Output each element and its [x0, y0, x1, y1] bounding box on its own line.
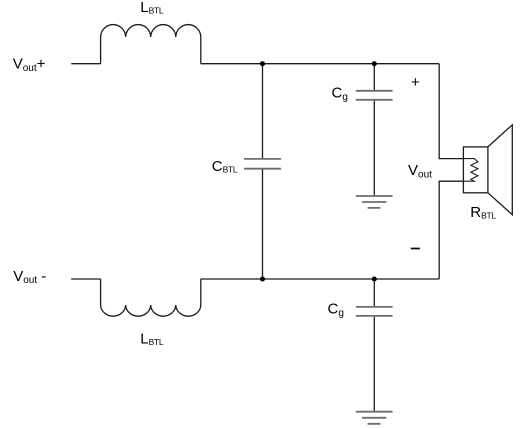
svg-text:Vout -: Vout -: [13, 268, 46, 286]
capacitor C_BTL plates: [244, 159, 281, 169]
svg-text:Vout: Vout: [408, 162, 432, 180]
capacitor C_BTL leads: [262, 64, 264, 279]
ground (top): [356, 196, 393, 208]
wire: Vout+ lead: [71, 63, 100, 65]
svg-text:Vout+: Vout+: [13, 56, 46, 74]
label - (speaker minus terminal): [411, 248, 420, 250]
svg-text:LBTL: LBTL: [140, 330, 164, 347]
svg-text:CBTL: CBTL: [212, 158, 238, 175]
capacitor Cg (top) leads: [373, 64, 375, 196]
svg-text:+: +: [411, 74, 420, 91]
wire: speaker to right vertical (bottom): [439, 181, 463, 279]
wire: Vout- lead: [71, 278, 100, 280]
wire: bottom rail: [201, 278, 439, 280]
capacitor Cg (top) plates: [356, 91, 393, 100]
node: junction bottom rail / Cg bottom: [372, 277, 377, 282]
capacitor Cg (bottom) plates: [356, 307, 393, 316]
node: junction top rail / Cg top: [372, 61, 377, 66]
svg-text:LBTL: LBTL: [140, 0, 164, 16]
svg-text:RBTL: RBTL: [470, 204, 496, 221]
speaker / resistor RBTL: [463, 125, 512, 215]
wire: top rail: [201, 63, 439, 65]
wire: right vertical (top) to speaker: [439, 64, 463, 159]
inductor L1 LBTL (top): [101, 25, 201, 64]
svg-text:Cg: Cg: [328, 301, 344, 319]
node: junction bottom rail / C_BTL: [260, 277, 265, 282]
capacitor Cg (bottom) leads: [373, 279, 375, 412]
svg-text:Cg: Cg: [332, 85, 348, 103]
inductor L2 LBTL (bottom): [101, 279, 201, 316]
node: junction top rail / C_BTL: [260, 61, 265, 66]
ground (bottom): [356, 412, 393, 424]
